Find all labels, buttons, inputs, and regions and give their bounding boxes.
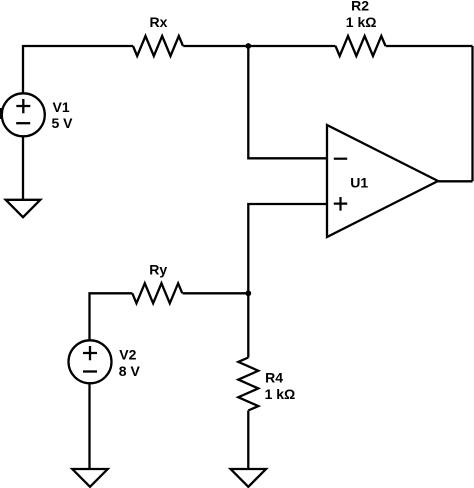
svg-text:V2: V2: [119, 347, 136, 363]
resistor R4: [238, 358, 258, 411]
wire: V1 − terminal to ground: [22, 136, 24, 200]
wire: node A down to inverting input: [248, 46, 327, 158]
svg-text:V1: V1: [53, 99, 70, 115]
ground at V1: [6, 200, 41, 217]
wire: node A to R2: [248, 45, 335, 47]
svg-text:Rx: Rx: [150, 14, 168, 30]
wire: V1 + terminal up and right to Rx: [23, 46, 133, 93]
voltage source V1: [2, 93, 45, 136]
node A junction: [245, 43, 251, 49]
V2 minus marker: [83, 370, 97, 372]
wire: op-amp output to feedback corner: [438, 180, 473, 182]
wire: R2 to feedback corner: [386, 45, 473, 47]
resistor Rx: [133, 36, 183, 56]
svg-text:8 V: 8 V: [119, 363, 141, 379]
wire: node B down to R4: [247, 293, 249, 357]
svg-text:1 kΩ: 1 kΩ: [346, 14, 377, 30]
svg-text:1 kΩ: 1 kΩ: [265, 386, 296, 402]
wire: V2 − terminal to ground: [88, 383, 90, 469]
U1 non-inverting input marker (+): [334, 197, 347, 211]
ground at R4: [231, 469, 266, 487]
ground at V2: [72, 469, 107, 487]
wire: non-inverting input left and down to node B: [248, 204, 327, 293]
V1 plus marker: [16, 99, 30, 113]
resistor Ry: [132, 283, 182, 303]
node B junction: [245, 290, 251, 296]
wire: Rx to node A: [183, 45, 248, 47]
V2 plus marker: [83, 346, 97, 360]
svg-text:R2: R2: [351, 0, 369, 14]
op-amp U1 body: [327, 125, 438, 237]
wire: Ry to node B: [183, 292, 249, 294]
wire: feedback vertical down to output: [471, 46, 473, 181]
V1 minus marker: [16, 122, 30, 124]
svg-text:Ry: Ry: [149, 262, 167, 278]
resistor R2: [336, 36, 386, 56]
cropped symbol stub at left edge: [0, 108, 2, 119]
wire: V2 + terminal up and right to Ry: [90, 293, 133, 340]
U1 inverting input marker (−): [334, 158, 347, 160]
voltage source V2: [69, 340, 112, 383]
wire: R4 to ground: [247, 411, 249, 470]
svg-text:U1: U1: [350, 175, 368, 191]
svg-text:R4: R4: [265, 369, 283, 385]
svg-text:5 V: 5 V: [52, 115, 74, 131]
